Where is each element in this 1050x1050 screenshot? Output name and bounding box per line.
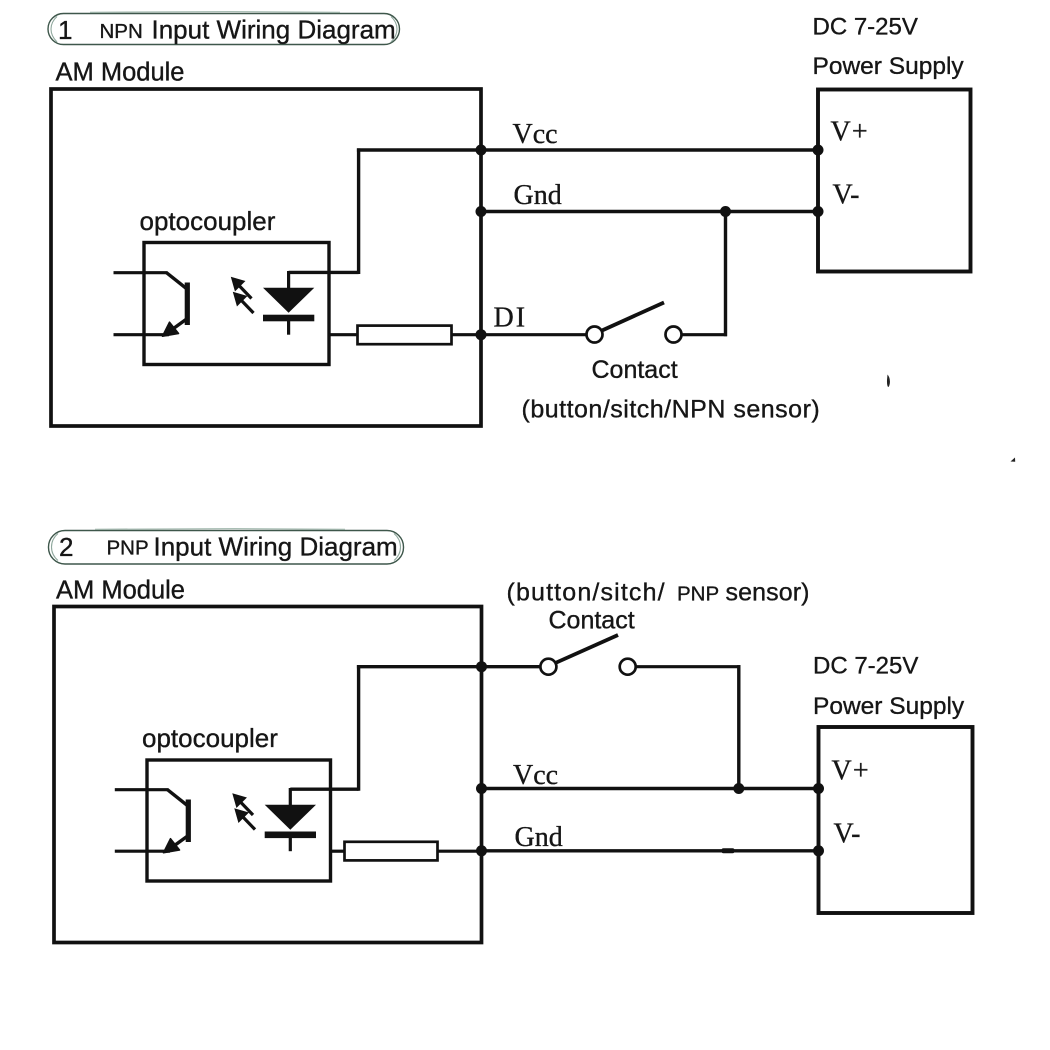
power supply box 2 bbox=[819, 727, 973, 913]
svg-text:(button/sitch/NPN sensor): (button/sitch/NPN sensor) bbox=[522, 396, 821, 424]
wire: resistor to Gnd pin 2 bbox=[438, 850, 484, 853]
light arrow 2b bbox=[235, 809, 255, 830]
emitter arrowhead bbox=[163, 322, 179, 336]
wire: contact feed line bbox=[357, 665, 541, 668]
svg-text:Contact: Contact bbox=[592, 356, 678, 384]
AM module box 1 bbox=[51, 89, 481, 426]
transistor bar bbox=[185, 283, 190, 326]
switch S1 contact circle A bbox=[587, 327, 603, 343]
node: V+ pin bbox=[813, 145, 824, 156]
emitter wire bbox=[114, 333, 170, 336]
svg-text:V+: V+ bbox=[831, 117, 869, 148]
emitter arrowhead bbox=[164, 839, 180, 853]
svg-text:Contact: Contact bbox=[549, 607, 635, 635]
node: Vcc pin bbox=[476, 145, 487, 156]
node: contact-vcc junction bbox=[733, 783, 744, 794]
wire: cathode to resistor 2 bbox=[331, 850, 346, 853]
AM module box 2 bbox=[54, 607, 482, 943]
svg-text:1: 1 bbox=[58, 15, 72, 45]
collector diagonal bbox=[167, 273, 188, 289]
node: Gnd pin bbox=[476, 206, 487, 217]
emitter diagonal bbox=[171, 836, 188, 849]
svg-text:Power Supply: Power Supply bbox=[813, 693, 965, 720]
light arrow 1b bbox=[234, 293, 254, 314]
svg-text:V-: V- bbox=[834, 819, 861, 850]
wire: Vcc line 2 bbox=[482, 787, 819, 790]
node: gnd-contact junction bbox=[720, 206, 731, 217]
light arrow 1a bbox=[232, 278, 252, 299]
wire: Vcc line bbox=[357, 148, 818, 151]
svg-text:sensor): sensor) bbox=[726, 579, 810, 607]
node: Gnd pin 2 bbox=[476, 845, 487, 856]
title 2 text bbox=[59, 532, 398, 563]
svg-text:DI: DI bbox=[494, 303, 528, 334]
transistor bar bbox=[186, 800, 191, 843]
title 1 text bbox=[58, 15, 396, 46]
optocoupler box 2 bbox=[147, 760, 331, 881]
svg-text:AM Module: AM Module bbox=[56, 59, 185, 87]
node: gnd dash mark bbox=[722, 848, 735, 853]
switch S2 lever bbox=[556, 635, 618, 663]
resistor R1 bbox=[358, 326, 452, 345]
collector wire bbox=[114, 271, 168, 274]
svg-text:V-: V- bbox=[833, 180, 860, 211]
svg-text:Gnd: Gnd bbox=[515, 822, 563, 853]
switch S1 contact circle B bbox=[666, 327, 682, 343]
node: DI pin bbox=[476, 329, 487, 340]
node: V- pin bbox=[813, 206, 824, 217]
node: V- pin 2 bbox=[813, 845, 824, 856]
node: Vcc pin 2 bbox=[476, 783, 487, 794]
cathode lead bbox=[287, 321, 290, 335]
svg-text:Gnd: Gnd bbox=[514, 180, 562, 211]
wire: resistor to DI pin bbox=[452, 333, 587, 336]
triangle bbox=[265, 805, 316, 830]
svg-text:Vcc: Vcc bbox=[513, 119, 558, 150]
collector diagonal bbox=[168, 790, 189, 806]
emitter diagonal bbox=[170, 319, 187, 332]
svg-text:Vcc: Vcc bbox=[513, 760, 558, 791]
cathode bar bbox=[265, 832, 316, 839]
phototransistor Q2 bbox=[115, 790, 189, 852]
LED D2 bbox=[265, 788, 316, 851]
svg-text:optocoupler: optocoupler bbox=[140, 206, 276, 236]
node: V+ pin 2 bbox=[813, 783, 824, 794]
wire: riser down to Vcc line bbox=[737, 665, 740, 788]
svg-text:PNP: PNP bbox=[107, 537, 149, 560]
svg-text:2: 2 bbox=[59, 532, 73, 562]
svg-text:AM Module: AM Module bbox=[56, 577, 185, 605]
svg-text:Input Wiring Diagram: Input Wiring Diagram bbox=[152, 15, 396, 45]
svg-text:NPN: NPN bbox=[100, 20, 143, 43]
stray tick mark bbox=[1011, 458, 1016, 462]
svg-text:DC 7-25V: DC 7-25V bbox=[813, 653, 918, 680]
wire: LED anode to Vcc (internal) bbox=[289, 148, 359, 274]
title badge 1 (green oval) bbox=[48, 12, 400, 45]
switch S1 lever bbox=[602, 303, 664, 331]
svg-text:(button/sitch/: (button/sitch/ bbox=[507, 579, 666, 607]
wire: Gnd line 2 bbox=[482, 849, 819, 852]
svg-text:V+: V+ bbox=[832, 756, 870, 787]
power supply box 1 bbox=[818, 90, 971, 272]
wire: LED anode to contact (internal riser) bbox=[290, 665, 358, 791]
anode lead bbox=[289, 788, 292, 807]
svg-text:optocoupler: optocoupler bbox=[142, 723, 278, 753]
switch S2 contact circle B bbox=[620, 659, 636, 675]
emitter wire bbox=[115, 850, 170, 853]
svg-text:PNP: PNP bbox=[677, 583, 719, 606]
wire: Gnd line bbox=[481, 210, 818, 213]
cathode bar bbox=[263, 315, 314, 322]
anode lead bbox=[287, 271, 290, 290]
collector wire bbox=[115, 788, 169, 791]
wire: cathode to resistor bbox=[329, 333, 358, 336]
optocoupler box 1 bbox=[144, 243, 329, 365]
svg-text:Input Wiring Diagram: Input Wiring Diagram bbox=[154, 532, 398, 562]
resistor R2 bbox=[345, 842, 438, 861]
cathode lead bbox=[289, 838, 292, 851]
wire: switch to Vcc riser bbox=[636, 665, 741, 668]
phototransistor Q1 bbox=[114, 273, 188, 335]
LED D1 bbox=[263, 271, 314, 335]
switch S2 contact circle A bbox=[540, 659, 556, 675]
light arrow 2a bbox=[233, 794, 253, 815]
node: contact pin bbox=[476, 661, 487, 672]
wire: switch to gnd riser bbox=[682, 333, 728, 336]
svg-text:Power Supply: Power Supply bbox=[813, 53, 965, 80]
wire: riser to Gnd line bbox=[724, 212, 727, 337]
stray apostrophe mark bbox=[887, 375, 890, 388]
title badge 2 (green oval) bbox=[49, 529, 404, 564]
svg-text:DC 7-25V: DC 7-25V bbox=[813, 14, 918, 41]
triangle bbox=[263, 288, 314, 313]
